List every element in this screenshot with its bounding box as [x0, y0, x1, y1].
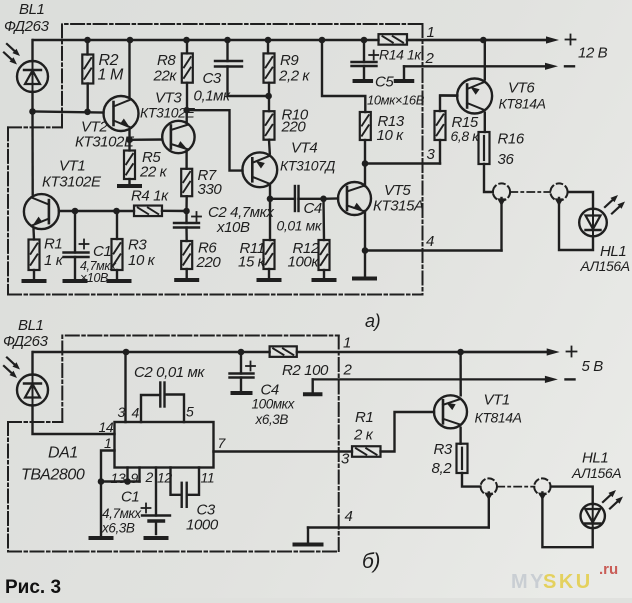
svg-text:5 В: 5 В [582, 358, 604, 375]
ground pin1 [91, 536, 112, 540]
node R7/R4/C2 [183, 208, 190, 215]
capacitor C3 (b) [180, 483, 182, 507]
transistor VT4 [242, 152, 277, 187]
pin 5 [166, 395, 185, 423]
svg-text:3: 3 [118, 404, 126, 420]
resistor R7 [181, 169, 192, 196]
pin 3 [124, 352, 126, 422]
svg-text:4: 4 [345, 508, 353, 525]
svg-text:VT6: VT6 [508, 80, 535, 97]
svg-text:MY: MY [511, 571, 546, 593]
svg-text:КТ315А: КТ315А [373, 198, 424, 215]
svg-text:22к: 22к [153, 68, 178, 85]
pin 13 [126, 468, 128, 482]
svg-text:а): а) [365, 311, 380, 331]
wire VT1 collector [31, 112, 34, 195]
svg-text:VT1: VT1 [484, 392, 510, 409]
capacitor C1 (a) [74, 211, 76, 253]
svg-text:4: 4 [132, 405, 140, 421]
svg-text:R1: R1 [355, 409, 373, 426]
svg-text:220: 220 [196, 254, 222, 271]
svg-text:R3: R3 [434, 441, 453, 458]
wire X2b to LED [542, 493, 592, 548]
svg-text:1: 1 [104, 435, 111, 451]
svg-text:HL1: HL1 [582, 450, 608, 467]
svg-text:х6,3В: х6,3В [101, 521, 135, 536]
connector X2 (a) [550, 183, 567, 200]
resistor R5 [128, 140, 130, 151]
wire VT6 collector [484, 113, 486, 132]
resistor R1 [29, 240, 40, 271]
ground VT5 [354, 277, 375, 281]
svg-text:1: 1 [343, 335, 351, 352]
svg-text:220: 220 [281, 119, 307, 136]
svg-text:DA1: DA1 [48, 445, 78, 462]
wire X1 to line4 [500, 198, 502, 251]
transistor VT6 [457, 79, 492, 114]
terminal line 2 [396, 79, 413, 83]
svg-text:10 к: 10 к [377, 127, 405, 144]
light arrows BL1 (a) [7, 44, 17, 53]
resistor R1 (b) [352, 446, 381, 457]
node rail dots [84, 37, 91, 44]
wire X2 to LED [559, 198, 593, 250]
pin 12 [171, 468, 182, 495]
svg-text:КТ3102Е: КТ3102Е [42, 174, 102, 191]
connector link (a) [510, 191, 550, 193]
svg-text:3: 3 [341, 451, 350, 468]
svg-text:R16: R16 [498, 131, 525, 148]
svg-text:х6,3В: х6,3В [255, 412, 289, 427]
svg-text:C4: C4 [304, 200, 322, 217]
ground R12 [314, 278, 335, 282]
capacitor C2 (b) [159, 383, 161, 407]
wire VT1b collector [459, 428, 461, 444]
svg-text:8,2: 8,2 [432, 460, 453, 477]
svg-text:SKU: SKU [543, 571, 593, 593]
svg-text:22 к: 22 к [139, 164, 168, 181]
wire VT4 collector [269, 185, 271, 199]
connector X2 (b) [534, 478, 550, 494]
terminal line 4 (b) [308, 526, 489, 528]
resistor R3 (b) [457, 444, 468, 473]
pin 2 [155, 468, 157, 516]
svg-text:BL1: BL1 [18, 317, 44, 334]
svg-text:VT4: VT4 [291, 140, 317, 157]
wire VT5 collector / node 3 [364, 140, 366, 186]
wire VT2 emitter node [128, 131, 130, 140]
resistor R3 (a) [116, 211, 118, 239]
svg-text:R1: R1 [44, 236, 62, 253]
terminal line 1 (+5V) [461, 351, 551, 353]
wire VT1 base node [59, 210, 134, 212]
capacitor C4 (b) [240, 352, 242, 374]
svg-text:б): б) [362, 550, 380, 573]
pin 1 [101, 451, 115, 537]
wire +rail a [33, 39, 379, 41]
svg-text:1 М: 1 М [98, 67, 125, 84]
terminal line 2 (b) [305, 392, 321, 396]
svg-text:ФД263: ФД263 [3, 333, 49, 350]
svg-text:х10В: х10В [216, 219, 250, 236]
resistor R9 [267, 40, 269, 53]
IC DA1 box [115, 422, 214, 468]
label +5V [567, 351, 577, 353]
svg-text:0,01 мк: 0,01 мк [277, 218, 323, 234]
resistor R8 [186, 40, 188, 53]
svg-text:15 к: 15 к [238, 254, 266, 271]
svg-text:9: 9 [131, 470, 139, 486]
ground C1 (a) [65, 279, 86, 283]
pin 4 [141, 395, 159, 422]
svg-text:КТ3107Д: КТ3107Д [280, 158, 336, 174]
svg-text:1 к: 1 к [44, 252, 64, 269]
resistor R12 [322, 199, 325, 240]
wire X1b to line4 [488, 493, 490, 528]
svg-text:14: 14 [99, 419, 114, 435]
svg-text:КТ814А: КТ814А [499, 96, 546, 112]
wire VT5 emitter / node 4 [364, 211, 366, 276]
svg-text:10мк×16В: 10мк×16В [367, 93, 425, 108]
svg-text:C1: C1 [93, 243, 111, 260]
node C4/R12/VT5 [320, 196, 327, 203]
ground R6 [176, 278, 197, 282]
wire VT1 emitter [32, 229, 35, 240]
svg-text:4,7мкх: 4,7мкх [102, 506, 142, 521]
transistor VT5 [338, 182, 371, 215]
wire VT3 collector node [183, 107, 190, 114]
svg-text:R4 1к: R4 1к [131, 188, 169, 205]
svg-text:6,8 к: 6,8 к [451, 128, 481, 144]
light arrows HL1 (b) [603, 493, 613, 502]
svg-text:12 В: 12 В [578, 45, 608, 62]
svg-text:ФД263: ФД263 [4, 18, 50, 35]
svg-text:2: 2 [343, 362, 353, 379]
resistor R16 [479, 132, 490, 164]
wire pins 1-13-9 [101, 480, 140, 482]
pin 9 [138, 468, 140, 482]
connector link (b) [497, 486, 534, 488]
border b (dash-dot enclosure) [62, 336, 338, 423]
terminal line 4 [365, 249, 502, 251]
svg-text:C2 0,01 мк: C2 0,01 мк [134, 364, 205, 381]
svg-text:C5: C5 [375, 74, 394, 91]
label +12V [566, 39, 576, 41]
svg-text:2: 2 [145, 469, 154, 485]
svg-text:C1: C1 [121, 489, 139, 506]
light arrows HL1 (a) [605, 198, 615, 207]
svg-text:BL1: BL1 [19, 1, 45, 18]
LED HL1 (a) [579, 209, 607, 237]
svg-text:2: 2 [425, 50, 435, 67]
ground R1 [24, 279, 45, 283]
svg-text:0,1мк: 0,1мк [194, 88, 232, 105]
pin 7 [214, 450, 353, 452]
svg-text:АЛ156А: АЛ156А [571, 465, 621, 481]
pin 11 [187, 468, 199, 495]
svg-text:VT5: VT5 [384, 182, 411, 199]
connector X1 (a) [493, 183, 510, 200]
capacitor C4 (a) [270, 198, 295, 200]
terminal line 3 [365, 162, 440, 164]
photodiode BL1 (b) [17, 375, 48, 406]
svg-text:330: 330 [198, 181, 223, 198]
light arrows BL1 (b) [7, 358, 17, 367]
svg-text:4: 4 [426, 233, 434, 250]
svg-text:2 к: 2 к [353, 427, 374, 444]
wire node A (photodiode to VT2 base) [33, 112, 104, 113]
svg-text:36: 36 [498, 151, 515, 168]
terminal line 1 (+12V) [407, 39, 550, 41]
ground C1 (b) [146, 536, 167, 540]
svg-text:3: 3 [427, 146, 436, 163]
svg-text:Рис. 3: Рис. 3 [5, 577, 61, 598]
capacitor C5 [363, 40, 365, 62]
transistor VT1 (b) [434, 395, 467, 428]
border a (dash-dot enclosure) [62, 24, 423, 127]
ground R3 (a) [109, 279, 130, 283]
svg-text:5: 5 [186, 404, 194, 420]
svg-text:100к: 100к [288, 254, 320, 271]
ground R11 [259, 278, 280, 282]
svg-text:13: 13 [111, 470, 126, 486]
resistor R14 [379, 34, 408, 45]
connector X1 (b) [481, 478, 497, 494]
ground C4 (b) [233, 391, 251, 395]
wire VT3 emitter [185, 151, 187, 169]
transistor VT3 [162, 121, 194, 153]
resistor R2 [86, 40, 88, 55]
resistor R6 [181, 241, 192, 269]
svg-text:ТВА2800: ТВА2800 [21, 467, 85, 484]
svg-text:R3: R3 [128, 237, 147, 254]
svg-text:1: 1 [427, 24, 435, 41]
resistor R2 (b) [270, 346, 297, 357]
capacitor C2 (a) [185, 211, 187, 223]
svg-text:R9: R9 [280, 52, 299, 69]
svg-text:R8: R8 [157, 52, 176, 69]
svg-text:R2 100: R2 100 [282, 362, 329, 379]
photodiode BL1 (a) [17, 61, 48, 92]
svg-text:КТ814А: КТ814А [475, 410, 522, 426]
svg-text:R14 1к: R14 1к [379, 47, 422, 63]
resistor R15 [439, 140, 441, 164]
svg-text:КТ3102Е: КТ3102Е [75, 134, 135, 151]
svg-text:100мкх: 100мкх [252, 397, 296, 412]
transistor VT1 [24, 194, 59, 229]
resistor R4 [134, 206, 162, 217]
svg-text:1000: 1000 [186, 517, 219, 534]
transistor VT2 [104, 96, 139, 131]
resistor R10 [268, 96, 270, 111]
svg-text:.ru: .ru [599, 561, 618, 578]
svg-text:12: 12 [157, 470, 172, 486]
svg-text:2,2 к: 2,2 к [278, 68, 310, 85]
svg-text:C3: C3 [203, 70, 222, 87]
resistor R13 [360, 112, 371, 140]
ground R5 [119, 184, 140, 188]
svg-text:АЛ156А: АЛ156А [580, 258, 630, 274]
capacitor C3 [226, 40, 228, 61]
capacitor C1 (b) [142, 507, 151, 509]
svg-text:10 к: 10 к [128, 252, 156, 269]
LED HL1 (b) [581, 504, 605, 528]
svg-text:11: 11 [201, 470, 215, 486]
resistor R11 [269, 199, 271, 240]
node R9/R10/C3 [265, 93, 272, 100]
svg-text:VT1: VT1 [59, 158, 85, 175]
wire +rail b [33, 351, 270, 353]
